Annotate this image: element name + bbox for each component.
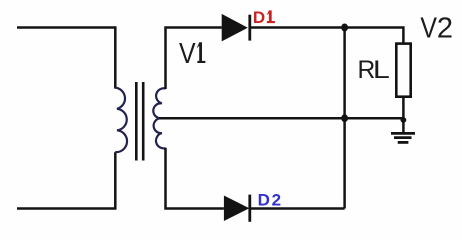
- label V1: [179, 38, 205, 70]
- resistor RL: [396, 44, 410, 97]
- wire top-left primary: [17, 28, 115, 89]
- junction dot ground: [401, 117, 407, 123]
- label V2: [420, 13, 453, 45]
- wire RL bottom to ground: [402, 98, 405, 133]
- transformer T1 primary winding: [115, 88, 127, 153]
- svg-text:D2: D2: [258, 191, 283, 210]
- transformer T1 secondary winding: [153, 88, 165, 148]
- wire D1 to top-right corner: [251, 28, 403, 43]
- wire center tap to ground: [159, 117, 403, 120]
- diode D2: [224, 195, 250, 222]
- junction dot top: [341, 24, 348, 32]
- wire D2 to bottom-right corner: [251, 207, 345, 210]
- diode D1: [222, 14, 250, 42]
- svg-text:D: D: [253, 8, 265, 27]
- svg-text:V: V: [179, 38, 196, 70]
- wire secondary top lead: [166, 28, 222, 90]
- svg-text:2: 2: [437, 13, 453, 45]
- svg-text:L: L: [373, 57, 390, 84]
- wire secondary bottom lead: [166, 148, 224, 209]
- wire bottom-left primary: [17, 152, 115, 208]
- svg-text:V: V: [420, 13, 437, 45]
- label RL: [358, 57, 390, 84]
- transformer T1 core: [136, 82, 143, 161]
- label D1: [253, 8, 275, 27]
- wire right vertical (D1 cathode to D2 cathode): [343, 28, 346, 209]
- junction dot middle: [341, 114, 348, 122]
- ground: [391, 133, 415, 142]
